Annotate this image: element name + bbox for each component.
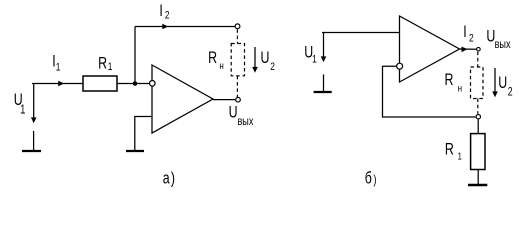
svg-text:б): б)	[365, 170, 377, 188]
svg-text:Uвых: Uвых	[486, 28, 511, 51]
dashed lead top of Rn (circuit b)	[477, 52, 479, 67]
op-amp U2 triangle (circuit b)	[400, 16, 460, 82]
svg-text:Uвых: Uвых	[229, 104, 254, 128]
wire input b	[322, 32, 400, 34]
svg-text:U2: U2	[261, 49, 275, 73]
dashed lead bottom of Rn (circuit b)	[477, 99, 479, 114]
arrowhead I1	[58, 81, 64, 87]
voltage arrow U1 (circuit b)	[321, 33, 327, 62]
dashed lead top of Rn (circuit a)	[236, 29, 238, 43]
arrowhead I2 (circuit b)	[462, 47, 468, 53]
dashed lead bottom of Rn (circuit a)	[236, 76, 238, 97]
wire input a	[32, 83, 83, 85]
wire top I2	[135, 26, 235, 28]
svg-text:U1: U1	[14, 92, 26, 117]
svg-text:R1: R1	[445, 141, 462, 162]
voltage arrow U1 (circuit a)	[31, 84, 37, 123]
svg-text:U2: U2	[498, 75, 513, 99]
svg-text:I2: I2	[463, 24, 473, 45]
op-amp b inverting input circle	[397, 63, 403, 69]
junction node circle (circuit b)	[476, 115, 480, 119]
resistor R1 (circuit a)	[83, 76, 117, 91]
node junction A (dot)	[133, 81, 138, 86]
voltage arrow U2 (circuit b)	[492, 68, 498, 97]
svg-text:I1: I1	[52, 53, 60, 74]
ground (op-amp a noninverting input)	[126, 150, 144, 152]
svg-text:I2: I2	[159, 3, 169, 22]
wire op-amp a noninverting input to ground	[135, 117, 152, 151]
svg-text:Rн: Rн	[445, 71, 463, 93]
wire output b	[460, 48, 477, 50]
arrowhead I2	[162, 24, 168, 30]
op-amp U1 triangle (circuit a)	[152, 65, 213, 133]
svg-text:Rн: Rн	[208, 49, 224, 71]
ground (under U1, circuit b)	[314, 74, 332, 92]
load terminal circle (circuit b, top)	[477, 47, 481, 51]
ground (under U1 source, circuit a)	[22, 131, 41, 151]
svg-text:а): а)	[163, 170, 175, 188]
wire R1 top lead (circuit b)	[477, 119, 479, 133]
wire R1 bottom lead (circuit b)	[477, 170, 479, 185]
load terminal circle top (circuit a)	[235, 24, 240, 29]
ground (circuit b bottom)	[468, 184, 487, 187]
load resistor Rn dashed box (circuit b)	[471, 67, 484, 99]
output terminal circle (circuit a)	[236, 97, 241, 102]
load resistor Rn dashed box (circuit a)	[231, 44, 244, 76]
svg-text:R1: R1	[98, 55, 112, 73]
wire feedback b: inverting input to R1/Rn junction	[383, 66, 476, 117]
svg-text:U1: U1	[304, 44, 317, 66]
voltage arrow U2 (circuit a)	[252, 47, 258, 73]
op-amp a inverting input circle	[150, 81, 156, 87]
wire riser to top	[134, 27, 136, 84]
resistor R1 (circuit b)	[471, 134, 485, 170]
wire output a	[213, 99, 235, 101]
wire R1 to op-amp inverting input	[117, 83, 149, 85]
